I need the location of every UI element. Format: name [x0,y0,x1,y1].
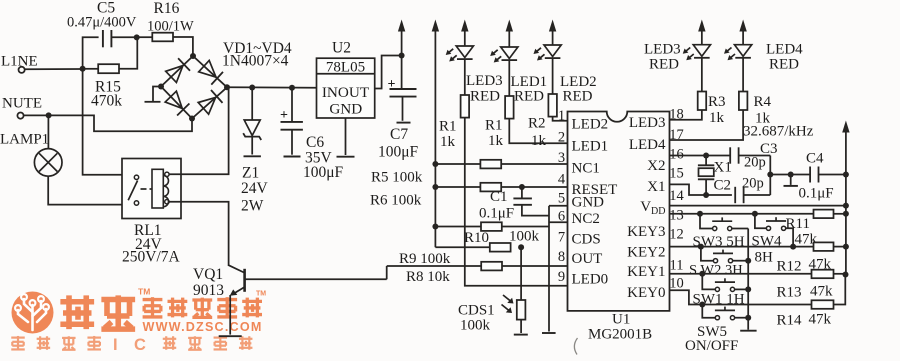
wire crystal caps to C4 row [767,156,773,196]
wire node up to C5 [83,37,99,69]
label LED1 RED [511,74,548,105]
svg-text:9013: 9013 [193,282,224,299]
svg-text:C7: C7 [390,126,408,143]
watermark dzsc logo and text [11,287,266,355]
lamp LAMP1 [0,115,134,204]
svg-text:ON/OFF: ON/OFF [685,338,738,354]
svg-text:RED: RED [649,57,679,73]
svg-text:U2: U2 [332,40,351,57]
svg-text:X1: X1 [714,160,732,176]
svg-text:8: 8 [558,249,565,265]
label U1 [612,312,630,328]
wire NUTE to bridge [24,115,192,131]
svg-text:X1: X1 [647,179,665,195]
svg-text:1N4007×4: 1N4007×4 [222,53,289,70]
svg-text:6: 6 [558,209,565,225]
resistor R10 row [435,222,549,231]
capacitor C3 [730,141,777,171]
wire VDD row pin14 [670,203,849,209]
svg-text:24V: 24V [241,180,269,197]
label R5 100k [371,170,423,186]
IC right pin numbers [669,107,684,292]
svg-text:KEY1: KEY1 [627,264,665,280]
regulator U2 78L05 [317,40,375,119]
label R10 100k [464,229,540,247]
capacitor C7 [378,56,419,161]
svg-text:20p: 20p [742,176,764,192]
stub at bridge left vertex [145,87,162,102]
label CDS1 100k [458,303,495,334]
label LED4 RED [766,42,803,73]
svg-text:KEY2: KEY2 [627,244,665,260]
resistor R3 [698,92,726,127]
switch SW4 [755,214,793,247]
svg-text:R5 100k: R5 100k [371,170,423,186]
svg-text:9: 9 [558,269,565,285]
crystal X1 [698,156,732,196]
svg-text:Z1: Z1 [242,165,259,182]
ground CDS1 [514,334,528,336]
svg-text:C4: C4 [806,151,824,167]
svg-text:I: I [113,336,118,354]
svg-text:1k: 1k [488,133,504,149]
bridge rectifier VD1-VD4 [158,53,230,122]
LED LED3-right [683,20,711,92]
svg-text:KEY0: KEY0 [627,285,665,301]
svg-text:S W2 3H: S W2 3H [689,263,743,279]
switch SW5 [702,305,751,321]
svg-text:100k: 100k [460,318,491,334]
svg-text:15: 15 [669,166,684,182]
wire LED1 chain to pin2 [509,119,567,144]
svg-text:CDS: CDS [572,232,601,248]
wire relay coil bottom to VQ1 [169,202,229,266]
svg-text:7: 7 [558,230,565,246]
wire U2 GND to ground [337,118,355,157]
svg-text:R4: R4 [754,94,772,110]
label 32.687kHz [743,124,814,140]
svg-text:LAMP1: LAMP1 [0,132,49,148]
resistor R8 base row [387,262,568,280]
label LED3 RED left [466,73,503,105]
svg-text:32.687/kHz: 32.687/kHz [743,124,814,140]
svg-text:2: 2 [558,130,565,146]
label SW5 ON/OFF [685,324,738,354]
node rail-R6 [432,184,438,190]
terminal L1NE [1,54,38,73]
svg-text:TM: TM [256,291,266,298]
wire key matrix column [747,229,749,318]
switch SW3 [700,214,748,231]
svg-text:LED2: LED2 [572,117,609,133]
transistor VQ1 [229,265,387,334]
svg-text:100μF: 100μF [303,164,344,181]
svg-text:20p: 20p [744,155,766,171]
power arrow right rail [842,121,849,276]
svg-text:TM: TM [138,287,150,297]
capacitor C4 [799,151,846,202]
svg-text:RED: RED [470,89,500,105]
node CDS junction [518,244,524,250]
ground stub on C4 row [784,175,798,186]
LED chain LED3-left [446,20,474,96]
svg-text:0.1μF: 0.1μF [479,206,514,222]
label R6 100k [370,193,422,209]
LED chain LED2 [534,20,562,95]
ground symbol mid [542,332,556,334]
wire C5 to node B [111,36,136,38]
svg-text:R12: R12 [777,259,802,275]
svg-text:0.47μ/400V: 0.47μ/400V [67,15,137,31]
label R9 100k [399,251,451,267]
svg-text:R8 10k: R8 10k [406,269,450,285]
svg-text:R9 100k: R9 100k [399,251,451,267]
resistor on pin7 row [490,243,511,252]
svg-text:VDD: VDD [640,199,665,217]
switch SW2 [701,247,751,264]
svg-text:KEY3: KEY3 [627,224,665,240]
IC left pin labels [572,117,618,288]
svg-text:LED3: LED3 [629,115,666,131]
svg-text:NUTE: NUTE [2,96,42,112]
node C7 junction [399,53,405,59]
svg-text:0.1μF: 0.1μF [799,186,834,202]
node rail-R10 [432,224,438,230]
svg-text:11: 11 [670,258,684,274]
svg-text:NC2: NC2 [572,211,600,227]
wire L1NE to node [25,68,83,70]
svg-text:1k: 1k [709,110,725,126]
LED LED4 [724,20,752,92]
svg-text:CDS1: CDS1 [458,303,495,319]
svg-text:LED3: LED3 [466,73,503,89]
label RL1 [122,222,181,266]
pin13 row KEY3 [670,211,814,217]
resistor R15 [83,37,138,109]
svg-text:R11: R11 [786,216,810,232]
ground net wire pins5-6 [549,206,568,332]
pin16 row X2 [670,153,731,159]
svg-text:GND: GND [572,194,605,210]
svg-text:L1NE: L1NE [1,54,38,70]
svg-text:R1: R1 [485,118,503,134]
svg-text:GND: GND [329,101,362,118]
svg-text:MG2001B: MG2001B [588,327,652,343]
svg-text:R3: R3 [708,94,726,110]
resistor R5 row to pin3 [435,160,567,169]
svg-text:R14: R14 [777,313,803,329]
label R8 10k [406,269,450,285]
stray scan mark [574,338,577,355]
node A junction [80,66,86,72]
svg-text:RED: RED [514,89,544,105]
svg-text:LED4: LED4 [629,137,666,153]
svg-text:R10: R10 [464,230,489,246]
svg-text:C: C [134,336,146,354]
wire LED2 chain to pin1 [553,117,568,121]
ground key matrix [740,318,756,331]
pin10 wire KEY0 [670,290,812,307]
LED chain LED1 [490,20,518,97]
svg-text:3: 3 [558,150,565,166]
svg-text:1: 1 [558,108,565,124]
svg-text:LED1: LED1 [572,139,609,155]
label SW1 1H [693,292,745,308]
pin18 wire to R3 [670,110,702,120]
wire U2 out to C7 node [375,56,402,89]
resistor R16 [137,0,194,56]
node rail-R5 [432,161,438,167]
power arrow rail [432,20,439,248]
svg-text:LED0: LED0 [572,272,609,288]
wire C4 row [770,172,810,178]
power arrow above C7 [398,20,405,56]
svg-text:13: 13 [669,208,684,224]
wire relay coil top to bridge [169,88,229,175]
svg-text:5: 5 [558,191,565,207]
svg-text:RED: RED [769,57,799,73]
resistor R2 [528,94,557,149]
label VQ1 9013 [193,266,224,299]
svg-text:470k: 470k [91,93,122,110]
svg-text:R16: R16 [154,0,180,17]
svg-text:U1: U1 [612,312,630,328]
resistor R13 [777,270,849,301]
pin12 row KEY2 [670,244,814,250]
terminal NUTE [2,96,42,119]
pin11 row KEY1 [670,271,812,277]
svg-text:X2: X2 [647,158,665,174]
IC right pin labels [627,115,666,301]
ground VQ1 emitter [219,335,242,337]
svg-text:100μF: 100μF [378,144,419,161]
node lamp junction [46,112,52,118]
svg-text:INOUT: INOUT [322,84,370,101]
svg-text:12: 12 [669,227,684,243]
resistor R1a [439,95,469,150]
svg-text:R1: R1 [439,119,457,135]
svg-text:LED3: LED3 [644,42,681,58]
pin17 wire to R4 [670,110,744,140]
svg-text:47k: 47k [810,284,833,300]
svg-text:WWW.DZSC.COM: WWW.DZSC.COM [143,320,263,334]
svg-text:R13: R13 [777,285,802,301]
relay RL1 [122,159,181,219]
label LED3 RED right [644,42,681,73]
wire LED3-left chain down to pin9 row [465,118,568,286]
svg-text:100k: 100k [509,229,540,245]
label SW4 [752,234,783,250]
svg-text:VQ1: VQ1 [193,266,223,283]
switch SW1 [702,274,751,293]
resistor R1b [485,96,514,149]
svg-text:1k: 1k [440,134,456,150]
svg-text:RED: RED [563,89,593,105]
wire bridge to U2 input [227,86,317,88]
svg-text:OUT: OUT [572,251,603,267]
svg-text:+: + [280,108,288,123]
svg-text:R2: R2 [528,116,546,132]
op-amp U1 MG2001B IC body [568,112,670,311]
zener Z1 [241,85,269,215]
capacitor C6 [280,85,344,181]
capacitor C2 [714,176,771,204]
photoresistor CDS1 [502,247,526,333]
svg-text:1k: 1k [531,133,547,149]
svg-text:47k: 47k [809,312,832,328]
label LED2 RED [560,74,597,105]
label SW2 3H [689,263,743,279]
resistor R14 [777,275,846,329]
svg-text:C2: C2 [714,178,732,194]
svg-text:C1: C1 [490,189,508,205]
wire rail to pin7 row [435,246,489,248]
label MG2001B [588,327,652,343]
resistor R12 [777,242,849,274]
svg-text:R6 100k: R6 100k [370,193,422,209]
svg-text:250V/7A: 250V/7A [122,249,181,266]
IC left pin numbers [558,108,566,285]
label VD1~VD4 [222,40,292,70]
svg-text:2W: 2W [241,198,264,215]
label 8H [755,250,774,266]
svg-text:C6: C6 [306,134,324,151]
capacitor C5 [67,0,137,47]
svg-text:4: 4 [558,172,566,188]
svg-text:14: 14 [669,188,684,204]
svg-text:10: 10 [669,276,684,292]
svg-text:LED4: LED4 [766,42,803,58]
label SW3 5H [693,234,745,250]
pin15 wire to crystal net [670,184,732,198]
wire node A down to relay [83,69,134,175]
node rail-C4 [843,172,849,178]
resistor R6 row to pin4 [435,183,567,192]
node B junction [134,34,140,40]
resistor R11 [786,210,849,248]
svg-text:NC1: NC1 [572,160,600,176]
svg-text:16: 16 [669,147,684,163]
svg-text:8H: 8H [755,250,774,266]
capacitor C1 [479,184,549,222]
resistor R4 [739,92,772,127]
